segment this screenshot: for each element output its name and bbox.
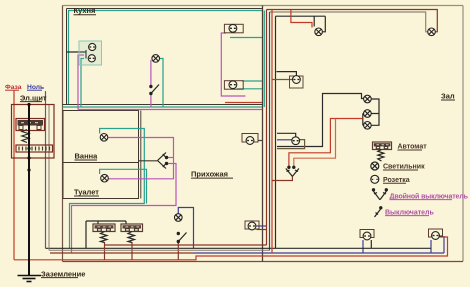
svg-text:Розетка: Розетка: [383, 177, 410, 184]
svg-text:Эл.щит: Эл.щит: [20, 93, 47, 102]
svg-text:Кухня: Кухня: [74, 6, 96, 15]
svg-text:Прихожая: Прихожая: [191, 170, 228, 179]
svg-text:Ванна: Ванна: [75, 152, 99, 161]
svg-text:Заземление: Заземление: [41, 269, 85, 278]
svg-text:Светильник: Светильник: [383, 164, 425, 171]
svg-text:Автомат: Автомат: [398, 144, 428, 151]
svg-text:Туалет: Туалет: [74, 188, 99, 197]
svg-text:Зал: Зал: [441, 92, 455, 101]
